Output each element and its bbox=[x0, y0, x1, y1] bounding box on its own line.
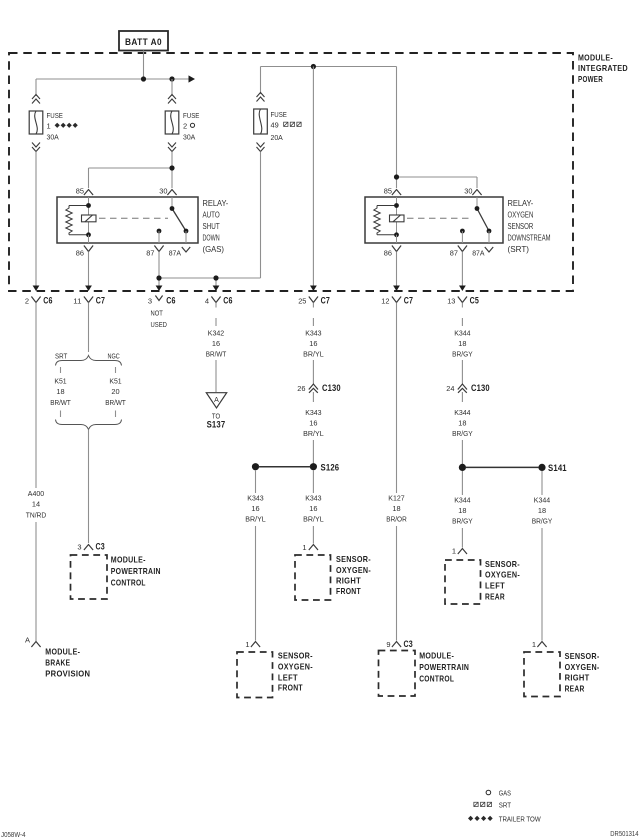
connector A brake provision bbox=[25, 636, 41, 648]
svg-text:C7: C7 bbox=[404, 296, 413, 306]
svg-text:SRT: SRT bbox=[55, 351, 68, 360]
module Integrated Power boundary bbox=[9, 53, 573, 291]
svg-text:K344: K344 bbox=[454, 496, 470, 505]
connector 2 C6 bbox=[25, 296, 53, 306]
svg-text:12: 12 bbox=[381, 297, 389, 306]
svg-text:(SRT): (SRT) bbox=[508, 245, 530, 254]
linkage dashed relay K2 bbox=[407, 217, 473, 219]
svg-text:C3: C3 bbox=[404, 639, 413, 649]
svg-text:SHUT: SHUT bbox=[203, 222, 220, 231]
svg-text:11: 11 bbox=[73, 297, 81, 306]
svg-text:LEFT: LEFT bbox=[278, 672, 298, 682]
svg-text:SENSOR-: SENSOR- bbox=[565, 651, 600, 661]
svg-text:SENSOR: SENSOR bbox=[508, 222, 534, 231]
svg-text:1: 1 bbox=[452, 547, 456, 556]
svg-text:RIGHT: RIGHT bbox=[565, 673, 590, 683]
connector 1 right front O2 bbox=[302, 543, 318, 552]
fuse F2 30A bbox=[165, 111, 199, 142]
linkage dashed relay K1 bbox=[99, 217, 168, 219]
svg-text:NOT: NOT bbox=[151, 308, 164, 317]
wire circuit A400 col 2C6 bbox=[35, 303, 37, 489]
svg-text:86: 86 bbox=[384, 248, 392, 257]
svg-text:16: 16 bbox=[251, 504, 259, 513]
label MODULE-POWERTRAIN CONTROL lower bbox=[419, 651, 469, 684]
connector 1 left rear O2 bbox=[452, 547, 467, 556]
svg-text:18: 18 bbox=[458, 418, 466, 427]
wire S126 to right front O2 bbox=[312, 470, 314, 493]
connector 11 C7 bbox=[73, 296, 105, 306]
svg-text:C130: C130 bbox=[471, 383, 490, 393]
connector chevrons below F2 bbox=[168, 143, 176, 152]
fuse F49 20A bbox=[254, 109, 287, 142]
pin 86 relay K2 bbox=[384, 246, 401, 258]
wire to splice S141 bbox=[461, 440, 463, 464]
wire to C130 b bbox=[461, 360, 463, 384]
connector 4 C6 bbox=[205, 296, 233, 306]
svg-text:CONTROL: CONTROL bbox=[111, 577, 146, 587]
wire to PCM lower bbox=[396, 526, 398, 641]
connector C130 pin 24 bbox=[446, 383, 490, 393]
wire col 25C7 upper bbox=[312, 303, 314, 327]
svg-text:BR/YL: BR/YL bbox=[303, 429, 324, 438]
svg-text:1: 1 bbox=[302, 543, 306, 552]
label K127 18 BR/OR bbox=[386, 494, 407, 524]
label K344 18 BR/GY b bbox=[452, 408, 473, 438]
connector chevrons above F2 bbox=[168, 95, 176, 104]
wire F1 to connector 2 C6 bbox=[35, 152, 37, 288]
terminal 87 relay K2 bbox=[460, 229, 465, 243]
svg-text:TRAILER TOW: TRAILER TOW bbox=[499, 815, 542, 824]
svg-text:BR/YL: BR/YL bbox=[245, 515, 266, 524]
arrow at module edge col 4 bbox=[213, 286, 220, 292]
pin 87A relay K2 unused bbox=[472, 247, 493, 257]
label K343 16 BR/YL d bbox=[245, 494, 266, 524]
junction relay K2 feed bbox=[394, 174, 399, 179]
svg-text:CONTROL: CONTROL bbox=[419, 674, 454, 684]
legend gas marker bbox=[486, 789, 511, 798]
svg-text:18: 18 bbox=[392, 504, 400, 513]
wire to ground symbol bbox=[215, 360, 217, 392]
wire BATT A0 down to bus bbox=[143, 51, 145, 80]
wire to sensor left front bbox=[255, 526, 257, 641]
svg-text:C6: C6 bbox=[166, 296, 175, 306]
svg-text:BATT A0: BATT A0 bbox=[125, 37, 162, 48]
connector chevrons below F1 bbox=[32, 143, 40, 152]
arrow at module edge col 25 bbox=[310, 286, 317, 292]
merge brace bottom bbox=[56, 420, 122, 430]
svg-text:REAR: REAR bbox=[565, 684, 585, 694]
svg-text:13: 13 bbox=[447, 297, 455, 306]
connector 1 left front O2 bbox=[245, 640, 260, 649]
svg-text:C7: C7 bbox=[321, 296, 330, 306]
svg-text:25: 25 bbox=[298, 297, 306, 306]
label MODULE-POWERTRAIN CONTROL upper bbox=[111, 554, 161, 587]
svg-text:DOWNSTREAM: DOWNSTREAM bbox=[508, 234, 551, 243]
label K344 18 BR/GY c bbox=[452, 496, 473, 526]
svg-text:SENSOR-: SENSOR- bbox=[278, 650, 313, 660]
label SENSOR-OXYGEN-LEFT REAR bbox=[485, 559, 520, 601]
svg-text:S137: S137 bbox=[207, 420, 226, 430]
svg-text:16: 16 bbox=[309, 504, 317, 513]
label SENSOR-OXYGEN-RIGHT REAR bbox=[565, 651, 600, 694]
svg-text:24: 24 bbox=[446, 384, 454, 393]
svg-text:2: 2 bbox=[183, 121, 187, 130]
pin 85 relay K1 bbox=[76, 187, 93, 196]
svg-text:86: 86 bbox=[76, 248, 84, 257]
svg-text:SRT: SRT bbox=[499, 801, 512, 810]
svg-text:MODULE-: MODULE- bbox=[578, 53, 613, 63]
wire bus to fuse F1 bbox=[35, 79, 37, 96]
label K344 18 BR/GY a bbox=[452, 329, 473, 359]
connector C130 pin 26 bbox=[297, 383, 341, 393]
label relay K2 bbox=[508, 199, 551, 254]
wire S126 to left front O2 bbox=[255, 470, 257, 493]
split brace top SRT/NGC bbox=[55, 351, 122, 365]
module Powertrain Control box lower bbox=[379, 651, 416, 697]
wire to sensor left rear bbox=[461, 528, 463, 548]
label SENSOR-OXYGEN-LEFT FRONT bbox=[278, 650, 313, 692]
splice S141 bbox=[459, 463, 567, 473]
label K342 16 BR/WT bbox=[206, 329, 227, 359]
pin 86 relay K1 bbox=[76, 246, 93, 258]
svg-text:C6: C6 bbox=[43, 296, 52, 306]
svg-text:REAR: REAR bbox=[485, 591, 505, 601]
svg-text:OXYGEN: OXYGEN bbox=[508, 211, 534, 220]
svg-text:PROVISION: PROVISION bbox=[45, 669, 90, 679]
legend trailer tow marker bbox=[468, 815, 541, 824]
svg-text:FUSE: FUSE bbox=[183, 111, 199, 120]
junction pin87 row A bbox=[156, 275, 161, 280]
svg-text:1: 1 bbox=[245, 640, 249, 649]
connector 12 C7 bbox=[381, 296, 413, 306]
wire S141 to left rear O2 bbox=[461, 471, 463, 495]
wire bus2 to connector 25 C7 bbox=[312, 67, 314, 288]
wire to sensor right rear bbox=[541, 528, 543, 641]
arrow continuation right bbox=[189, 75, 196, 82]
pin 87 relay K1 bbox=[146, 246, 163, 258]
label K343 16 BR/YL c bbox=[303, 494, 324, 524]
svg-text:DR501314: DR501314 bbox=[610, 831, 638, 838]
wire merge to PCM bbox=[88, 430, 90, 544]
svg-text:OXYGEN-: OXYGEN- bbox=[485, 570, 520, 580]
bus feed fuse F49 / relay K2 bbox=[261, 67, 397, 95]
switch contact relay K2 bbox=[475, 197, 492, 243]
wire to splice S126 bbox=[312, 440, 314, 464]
svg-text:C5: C5 bbox=[470, 296, 479, 306]
branch wire NGC lower bbox=[115, 411, 117, 418]
label SENSOR-OXYGEN-RIGHT FRONT bbox=[336, 554, 371, 596]
sensor Oxygen Left Rear box bbox=[445, 560, 481, 604]
junction bus/fuse2 bbox=[169, 76, 174, 81]
svg-text:TN/RD: TN/RD bbox=[26, 511, 47, 520]
wire F49 to relay K1 output row bbox=[260, 152, 262, 279]
label NOT USED bbox=[151, 308, 168, 328]
svg-text:OXYGEN-: OXYGEN- bbox=[336, 565, 371, 575]
srt marker squares F49 bbox=[284, 122, 302, 126]
svg-text:16: 16 bbox=[309, 339, 317, 348]
connector 13 C5 bbox=[447, 296, 479, 306]
svg-text:RIGHT: RIGHT bbox=[336, 576, 361, 586]
svg-text:14: 14 bbox=[32, 500, 40, 509]
svg-text:FRONT: FRONT bbox=[278, 682, 303, 692]
junction F2 output bbox=[169, 165, 174, 170]
connector 3 C3 PCM bbox=[77, 541, 105, 551]
svg-text:18: 18 bbox=[56, 387, 64, 396]
wire to C130 a bbox=[312, 360, 314, 384]
svg-text:K51: K51 bbox=[109, 377, 121, 386]
label MODULE-INTEGRATED POWER bbox=[578, 53, 628, 84]
svg-text:MODULE-: MODULE- bbox=[419, 651, 454, 661]
svg-text:RELAY-: RELAY- bbox=[508, 199, 534, 208]
relay Auto Shut Down K1 bbox=[57, 197, 198, 243]
fuse F1 30A bbox=[29, 111, 63, 142]
svg-text:16: 16 bbox=[309, 418, 317, 427]
svg-text:POWERTRAIN: POWERTRAIN bbox=[111, 566, 161, 576]
svg-text:K343: K343 bbox=[305, 494, 321, 503]
svg-text:C6: C6 bbox=[223, 296, 232, 306]
switch contact relay K1 bbox=[170, 197, 189, 243]
svg-text:MODULE-: MODULE- bbox=[45, 646, 80, 656]
svg-text:1: 1 bbox=[532, 640, 536, 649]
coil relay K1 bbox=[66, 197, 96, 243]
wire col 4C6 upper bbox=[215, 303, 217, 327]
svg-text:K342: K342 bbox=[208, 329, 224, 338]
wire bus2 to relay K2 bbox=[397, 67, 478, 189]
sheet number DR501314 bbox=[610, 831, 638, 838]
terminal 87 relay K1 bbox=[157, 229, 162, 243]
connector 1 right rear O2 bbox=[532, 640, 547, 649]
label K51 20 BR/WT bbox=[105, 377, 126, 408]
svg-text:AUTO: AUTO bbox=[203, 211, 220, 220]
coil relay K2 bbox=[374, 197, 404, 243]
svg-text:87A: 87A bbox=[472, 248, 484, 257]
legend srt marker bbox=[474, 801, 511, 810]
svg-text:POWER: POWER bbox=[578, 74, 603, 84]
svg-text:30: 30 bbox=[464, 187, 472, 196]
svg-text:K343: K343 bbox=[305, 408, 321, 417]
arrow at module edge col F1 bbox=[33, 286, 40, 292]
wire A400 lower bbox=[35, 522, 37, 641]
arrow at module edge col 11 bbox=[85, 286, 92, 292]
svg-text:85: 85 bbox=[76, 187, 84, 196]
connector chevrons below F49 bbox=[257, 143, 265, 152]
junction bus/BATT bbox=[141, 76, 146, 81]
svg-text:BR/GY: BR/GY bbox=[452, 517, 473, 526]
svg-text:1: 1 bbox=[47, 121, 51, 130]
svg-text:A: A bbox=[214, 397, 219, 404]
svg-text:K344: K344 bbox=[454, 408, 470, 417]
svg-text:USED: USED bbox=[151, 320, 168, 329]
label K51 18 BR/WT bbox=[50, 377, 71, 408]
wire K1 pin87 / F49 output row bbox=[159, 252, 261, 288]
wire col 11C7 to split bbox=[88, 303, 90, 353]
wire below C130 b bbox=[461, 392, 463, 402]
svg-text:16: 16 bbox=[212, 339, 220, 348]
pin 87A relay K1 unused bbox=[169, 247, 191, 257]
connector chevrons above F1 bbox=[32, 95, 40, 104]
wire to sensor right front bbox=[312, 526, 314, 544]
svg-text:BRAKE: BRAKE bbox=[45, 658, 70, 668]
label MODULE-BRAKE PROVISION bbox=[45, 646, 90, 678]
svg-text:30: 30 bbox=[159, 187, 167, 196]
svg-text:NGC: NGC bbox=[108, 351, 121, 360]
label A400 14 TN/RD bbox=[26, 489, 47, 520]
label K343 16 BR/YL b bbox=[303, 408, 324, 438]
svg-text:18: 18 bbox=[458, 506, 466, 515]
svg-text:2: 2 bbox=[25, 297, 29, 306]
branch wire NGC bbox=[115, 367, 117, 373]
svg-text:INTEGRATED: INTEGRATED bbox=[578, 63, 628, 73]
junction bus2 col 25 bbox=[311, 64, 316, 69]
sensor Oxygen Right Front box bbox=[295, 555, 331, 600]
sensor Oxygen Left Front box bbox=[237, 652, 273, 698]
svg-text:BR/WT: BR/WT bbox=[105, 398, 126, 407]
junction pin87 row B bbox=[213, 275, 218, 280]
svg-text:BR/WT: BR/WT bbox=[50, 398, 71, 407]
wire K2 pin87 to connector 13 C5 bbox=[461, 252, 463, 288]
bus B+ feed top bbox=[36, 78, 189, 80]
svg-text:A: A bbox=[25, 636, 30, 645]
arrow at module edge col 3 bbox=[156, 286, 163, 292]
gas marker circle F2 bbox=[190, 123, 194, 127]
wire col 13C5 upper bbox=[461, 303, 463, 327]
svg-text:87A: 87A bbox=[169, 248, 181, 257]
svg-text:18: 18 bbox=[458, 339, 466, 348]
label TO S137 bbox=[207, 411, 226, 429]
svg-text:POWERTRAIN: POWERTRAIN bbox=[419, 662, 469, 672]
wire K2 pin86 to connector 12 C7 bbox=[396, 252, 398, 288]
wire below C130 a bbox=[312, 392, 314, 402]
splice S126 bbox=[252, 462, 339, 472]
arrow at module edge col 12 bbox=[393, 286, 400, 292]
arrow at module edge col 13 bbox=[459, 286, 466, 292]
svg-text:3: 3 bbox=[148, 297, 152, 306]
svg-text:FRONT: FRONT bbox=[336, 586, 361, 596]
ground splice symbol A S137 bbox=[206, 393, 226, 408]
svg-text:S141: S141 bbox=[548, 463, 567, 473]
pin 30 relay K1 bbox=[159, 187, 176, 196]
svg-text:BR/WT: BR/WT bbox=[206, 350, 227, 359]
sensor Oxygen Right Rear box bbox=[524, 652, 560, 697]
svg-text:20A: 20A bbox=[271, 133, 283, 142]
label K343 16 BR/YL a bbox=[303, 329, 324, 359]
svg-text:49: 49 bbox=[271, 120, 279, 129]
wire F2 to relay K1 contacts bbox=[89, 152, 173, 189]
battery feed BATT A0 bbox=[119, 31, 168, 51]
svg-text:BR/OR: BR/OR bbox=[386, 515, 407, 524]
svg-text:C130: C130 bbox=[322, 383, 341, 393]
svg-text:18: 18 bbox=[538, 506, 546, 515]
sheet number J058W-4 bbox=[1, 832, 26, 839]
label relay K1 bbox=[203, 199, 229, 254]
svg-text:C7: C7 bbox=[96, 296, 105, 306]
svg-text:BR/GY: BR/GY bbox=[452, 429, 473, 438]
svg-text:BR/YL: BR/YL bbox=[303, 515, 324, 524]
wire S141 to right rear O2 bbox=[541, 471, 543, 495]
svg-text:K343: K343 bbox=[247, 494, 263, 503]
svg-text:3: 3 bbox=[77, 542, 81, 551]
branch wire SRT lower bbox=[60, 411, 62, 418]
wire K1 pin86 to connector 11 C7 bbox=[88, 252, 90, 288]
svg-text:SENSOR-: SENSOR- bbox=[336, 554, 371, 564]
svg-text:4: 4 bbox=[205, 297, 209, 306]
trailer-tow marker diamonds F1 bbox=[55, 123, 78, 128]
svg-text:SENSOR-: SENSOR- bbox=[485, 559, 520, 569]
svg-text:BR/GY: BR/GY bbox=[452, 350, 473, 359]
svg-text:85: 85 bbox=[384, 187, 392, 196]
svg-text:S126: S126 bbox=[321, 462, 340, 472]
svg-text:30A: 30A bbox=[183, 133, 195, 142]
svg-text:RELAY-: RELAY- bbox=[203, 199, 229, 208]
svg-text:A400: A400 bbox=[28, 489, 44, 498]
svg-text:30A: 30A bbox=[47, 133, 59, 142]
svg-text:K51: K51 bbox=[54, 377, 66, 386]
connector 9 C3 PCM lower bbox=[386, 639, 413, 649]
svg-text:FUSE: FUSE bbox=[47, 111, 63, 120]
pin 87 relay K2 bbox=[450, 246, 467, 258]
svg-text:MODULE-: MODULE- bbox=[111, 554, 146, 564]
pin 85 relay K2 bbox=[384, 187, 401, 196]
svg-text:LEFT: LEFT bbox=[485, 581, 505, 591]
module Powertrain Control box upper bbox=[71, 555, 108, 599]
svg-text:J058W-4: J058W-4 bbox=[1, 832, 26, 839]
svg-text:FUSE: FUSE bbox=[271, 110, 287, 119]
relay Oxygen Sensor Downstream K2 bbox=[365, 197, 503, 243]
svg-text:C3: C3 bbox=[96, 541, 105, 551]
svg-text:DOWN: DOWN bbox=[203, 234, 220, 243]
label K344 18 BR/GY d bbox=[532, 496, 553, 526]
wire circuit K127 col 12C7 bbox=[396, 303, 398, 494]
svg-text:20: 20 bbox=[111, 387, 119, 396]
wire bus to fuse F2 bbox=[171, 79, 173, 96]
svg-text:(GAS): (GAS) bbox=[203, 245, 225, 254]
svg-text:BR/YL: BR/YL bbox=[303, 350, 324, 359]
svg-text:K127: K127 bbox=[388, 494, 404, 503]
svg-text:OXYGEN-: OXYGEN- bbox=[565, 662, 600, 672]
svg-text:K344: K344 bbox=[534, 496, 550, 505]
svg-text:K343: K343 bbox=[305, 329, 321, 338]
connector 25 C7 bbox=[298, 296, 330, 306]
branch wire SRT bbox=[60, 367, 62, 373]
svg-text:9: 9 bbox=[386, 640, 390, 649]
svg-text:26: 26 bbox=[297, 384, 305, 393]
connector chevrons above F49 bbox=[257, 93, 265, 102]
pin 30 relay K2 bbox=[464, 187, 481, 196]
connector 3 C6 bbox=[148, 296, 176, 306]
svg-text:87: 87 bbox=[146, 248, 154, 257]
svg-text:K344: K344 bbox=[454, 329, 470, 338]
svg-text:BR/GY: BR/GY bbox=[532, 517, 553, 526]
svg-text:OXYGEN-: OXYGEN- bbox=[278, 661, 313, 671]
svg-text:87: 87 bbox=[450, 248, 458, 257]
svg-text:GAS: GAS bbox=[499, 789, 511, 798]
